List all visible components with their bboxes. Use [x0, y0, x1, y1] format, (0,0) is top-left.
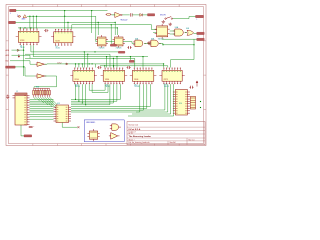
wire y44.8 to vertical x194 [162, 44, 194, 45]
svg-text:2: 2 [198, 36, 199, 38]
sheet border frame [6, 5, 206, 146]
cap C3 [97, 66, 101, 69]
ic U12 74LS244 [130, 68, 157, 89]
hier label right 1 [196, 15, 204, 17]
cap C5 [6, 95, 9, 99]
hier label RESET (top middle) [148, 14, 155, 16]
small symbol next to CLK2 [66, 63, 68, 65]
label mid3 [129, 60, 134, 62]
power symbol +5V [18, 54, 20, 57]
wire gate3 to gate4 [185, 32, 187, 34]
wire trunk y24.7 [72, 24, 157, 44]
svg-text:SW_PB: SW_PB [160, 15, 166, 17]
svg-text:U10: U10 [75, 84, 78, 86]
wires J1 to U13 and bus junctions [30, 99, 54, 119]
diode D2 [17, 49, 19, 51]
ic U13 [54, 103, 72, 123]
resistor R1 [106, 14, 112, 16]
net label A15 [6, 54, 11, 57]
wire from MEMREQ [15, 67, 35, 76]
svg-text:RD: RD [6, 61, 10, 63]
or gate U6B [186, 28, 194, 35]
svg-text:1: 1 [197, 19, 198, 21]
wire from CLK label [16, 21, 116, 23]
wire trunk y65.8 [100, 65, 168, 67]
svg-text:UNUSED: UNUSED [86, 122, 96, 124]
svg-text:74LS74: 74LS74 [116, 48, 122, 50]
diode D1 [140, 14, 142, 17]
and gate U6A [173, 26, 187, 36]
svg-text:J1: J1 [16, 91, 18, 93]
ic U13a 74LS273 [159, 68, 184, 89]
svg-text:RN1: RN1 [36, 87, 39, 89]
wire inverter out [122, 14, 130, 16]
clock module X1 [22, 15, 27, 21]
wire FF3 to gate [170, 31, 175, 34]
wire gate1 to gate2 [144, 42, 151, 44]
wire trunk y56.6 [33, 45, 148, 67]
wire from A15 [12, 55, 31, 58]
ic U14 vertical [173, 90, 190, 116]
switch SW1 [160, 15, 173, 20]
junction dots on oscillator trunk [29, 16, 65, 17]
svg-text:Revision note: Revision note [129, 123, 139, 126]
ic U1 74LS193 [16, 28, 42, 49]
label mid [110, 44, 116, 46]
global label CLK (left) [9, 21, 16, 23]
hier label right 3 [197, 38, 205, 40]
svg-text:U13: U13 [57, 103, 60, 105]
wire cap to diode [132, 14, 140, 16]
wire FF2 out [123, 42, 135, 44]
bus wires lower middle [71, 84, 150, 112]
crystal Y1 [17, 15, 21, 18]
wire from A14 [12, 49, 24, 51]
junction dots right [200, 101, 201, 108]
resistor network RN1 [33, 87, 51, 98]
svg-text:Size: A4: Size: A4 [170, 141, 176, 144]
wire trunk y54.2 [25, 54, 110, 68]
svg-text:U11: U11 [105, 84, 108, 86]
wire from RD [10, 61, 35, 64]
and gate unused [110, 124, 121, 130]
wire diagonal fan from RN1 [34, 97, 65, 112]
flip-flop U3B [113, 35, 126, 50]
wire from RESET label [16, 10, 108, 12]
wire buffer2 out [34, 76, 57, 89]
wire diode to label [142, 14, 147, 16]
hier label bottom left [24, 135, 32, 137]
flip-flop U5B unused [87, 129, 99, 141]
svg-text:74244: 74244 [105, 79, 110, 81]
buffer U8B [35, 74, 46, 78]
wire drops from CLK trunk [67, 22, 115, 35]
polarized cap C6 [29, 126, 34, 128]
svg-text:"Reboot": "Reboot" [120, 19, 128, 22]
net label A14 [6, 49, 11, 52]
svg-text:74193: 74193 [20, 40, 25, 42]
note Reboot [120, 19, 128, 22]
vertical x194 [171, 39, 194, 67]
power symbol up right [196, 81, 198, 87]
buffer unused [109, 133, 120, 140]
svg-text:U12: U12 [134, 84, 137, 86]
vertical x23.6 [23, 45, 24, 76]
svg-text:A15: A15 [6, 54, 11, 57]
wire trunk y51.9 [31, 45, 118, 67]
buffer U8A [35, 62, 46, 66]
ic U10 74LS244 [70, 68, 97, 89]
svg-text:74244: 74244 [134, 79, 139, 81]
svg-text:74193: 74193 [55, 41, 60, 43]
ground [168, 23, 172, 26]
connector J1 [13, 91, 30, 125]
wire to label 3 [162, 38, 197, 40]
wire gate4 to label [194, 32, 197, 34]
wire oscillator trunk [27, 15, 96, 17]
cap C4 [127, 66, 131, 69]
wire drops into U1 top pins [30, 16, 37, 28]
wire FF1 to FF2 [106, 41, 115, 43]
svg-text:74LS74: 74LS74 [99, 48, 105, 50]
inverter U7A [112, 12, 123, 17]
and gate U4A [133, 37, 146, 46]
svg-text:74LS1: 74LS1 [20, 47, 25, 49]
title block [127, 122, 205, 145]
and gate U4B [149, 38, 161, 46]
ic U2 74LS193 [51, 29, 75, 50]
svg-text:74LS11: 74LS11 [105, 86, 110, 88]
svg-text:U6B: U6B [186, 28, 189, 30]
svg-text:4MHz: 4MHz [22, 19, 26, 21]
UNUSED annotation box [84, 120, 124, 142]
no-connect mark [78, 126, 80, 128]
wire switch to label [173, 17, 196, 19]
wire loops U10 to U11 [89, 84, 108, 92]
svg-text:The Bouncing Loader: The Bouncing Loader [129, 136, 152, 138]
svg-text:Id: 1/1: Id: 1/1 [129, 133, 133, 135]
ground [147, 42, 151, 45]
svg-text:74LS2: 74LS2 [56, 48, 61, 50]
svg-text:U2: U2 [56, 46, 58, 48]
hier label MEMREQ [6, 66, 16, 68]
wire buffer1 out [45, 63, 48, 65]
svg-text:1: 1 [10, 13, 11, 15]
U10 bottom drops to bus [75, 84, 86, 105]
wire trunk y58.4 [25, 58, 135, 68]
svg-text:U1: U1 [20, 45, 22, 47]
svg-text:KiCad E.D.A.: KiCad E.D.A. [129, 128, 142, 131]
wire gate2 out [159, 43, 163, 44]
svg-text:U13: U13 [164, 84, 167, 86]
wire loop right vertical group [128, 84, 174, 116]
svg-text:CLK2: CLK2 [57, 62, 62, 64]
flip-flop U5A [155, 24, 170, 41]
svg-text:Sheet: /: Sheet: / [129, 138, 135, 141]
ground [162, 20, 166, 23]
cap C7 [189, 86, 193, 89]
flip-flop U3A [96, 35, 109, 50]
wire J1 bottom to label [21, 125, 24, 136]
svg-text:+: + [33, 126, 34, 128]
cap C8 [127, 46, 131, 49]
wire into FF3 [153, 31, 157, 33]
wire U13 bottom [62, 123, 77, 128]
svg-text:Rev: 1.0: Rev: 1.0 [189, 139, 195, 141]
capacitor C1 [131, 13, 133, 16]
net label CLK2 [57, 62, 62, 64]
net label RD [6, 61, 10, 63]
svg-text:74LS13: 74LS13 [164, 86, 169, 88]
svg-text:74273: 74273 [164, 79, 169, 81]
wire drop to U2 top [64, 10, 65, 29]
wire drop to FF1 input [96, 16, 98, 41]
wire drop x91.7 [91, 10, 92, 33]
wire trunk y27.9 [18, 27, 117, 35]
svg-text:74244: 74244 [74, 79, 79, 81]
resonator X2 [190, 96, 195, 109]
svg-text:A14: A14 [6, 49, 11, 52]
svg-text:74LS12: 74LS12 [134, 86, 139, 88]
label mid2 [118, 51, 125, 53]
svg-text:File: the_bouncing_loader.sch: File: the_bouncing_loader.sch [129, 141, 150, 144]
svg-text:U14: U14 [179, 103, 182, 105]
cap C2 [44, 29, 48, 32]
hier label right 2 [197, 32, 205, 34]
ic U11 74LS244 [101, 68, 128, 89]
global label RESET (left top) [10, 9, 17, 11]
wire trunk y63.9 [47, 63, 164, 67]
